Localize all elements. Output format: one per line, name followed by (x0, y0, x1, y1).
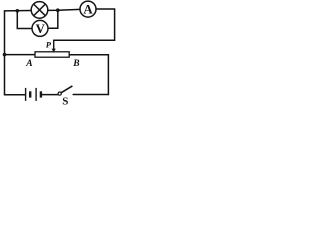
wire bottom right (corner to switch) (73, 94, 108, 96)
wire right vertical (ammeter side) (114, 9, 116, 40)
wire battery to switch (42, 94, 58, 96)
node junction top-left (15, 9, 19, 13)
node junction top-right (56, 8, 60, 12)
svg-text:B: B (72, 59, 79, 69)
node junction left-middle (3, 53, 7, 57)
voltmeter V1 (32, 20, 48, 36)
svg-text:V: V (36, 22, 46, 36)
svg-text:A: A (83, 3, 93, 17)
lamp L (31, 2, 48, 19)
wire voltmeter branch right (48, 10, 58, 28)
rheostat slider arrow P (52, 40, 56, 53)
battery cells (26, 88, 41, 101)
ammeter A1 (80, 1, 96, 17)
switch S (58, 86, 72, 95)
wire left vertical (4, 11, 6, 95)
wire bottom left (corner to battery) (5, 94, 26, 96)
wire B-side from rheostat (69, 55, 108, 95)
rheostat body (35, 52, 69, 57)
wire slider feed (54, 39, 115, 41)
svg-text:A: A (25, 59, 32, 69)
wire top (left corner to top-right corner) (5, 9, 115, 11)
svg-text:P: P (46, 39, 52, 49)
wire voltmeter branch left (17, 11, 32, 29)
svg-text:S: S (62, 95, 68, 107)
wire A-side to rheostat (5, 54, 36, 56)
